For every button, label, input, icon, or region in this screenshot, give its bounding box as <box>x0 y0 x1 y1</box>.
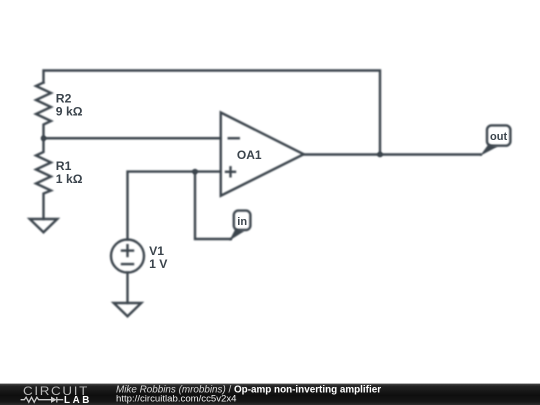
svg-text:in: in <box>237 216 247 228</box>
svg-text:1 kΩ: 1 kΩ <box>56 172 83 186</box>
svg-text:9 kΩ: 9 kΩ <box>56 105 83 119</box>
svg-text:http://circuitlab.com/cc5v2x4: http://circuitlab.com/cc5v2x4 <box>116 393 237 404</box>
svg-text:V1: V1 <box>149 244 164 258</box>
svg-text:R1: R1 <box>56 159 72 173</box>
svg-text:OA1: OA1 <box>237 148 262 162</box>
svg-text:LAB: LAB <box>64 395 92 405</box>
svg-text:1 V: 1 V <box>149 257 168 271</box>
svg-text:out: out <box>490 131 507 143</box>
svg-text:R2: R2 <box>56 92 72 106</box>
